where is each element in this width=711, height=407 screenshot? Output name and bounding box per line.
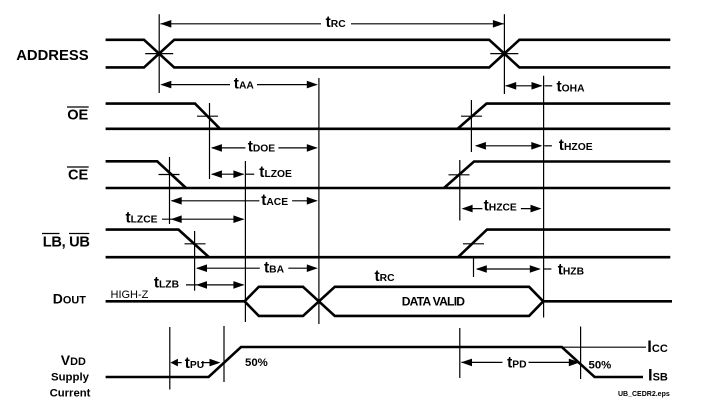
svg-text:DOUT: DOUT bbox=[53, 291, 86, 307]
svg-text:tHZB: tHZB bbox=[558, 261, 584, 278]
tick on LB/UB rising edge bbox=[463, 243, 484, 245]
svg-text:ICC: ICC bbox=[647, 338, 668, 356]
svg-text:Current: Current bbox=[50, 388, 91, 400]
tick on OE rising edge bbox=[461, 115, 482, 117]
svg-text:tACE: tACE bbox=[261, 192, 288, 209]
tick at ADDRESS crossover 2 bbox=[490, 53, 518, 55]
vertical reference line at OE rise (x=471.4) bbox=[470, 100, 472, 152]
svg-text:Supply: Supply bbox=[51, 372, 90, 384]
tick on LB/UB falling edge bbox=[185, 243, 206, 245]
svg-text:ISB: ISB bbox=[648, 367, 668, 385]
svg-text:VDD: VDD bbox=[61, 352, 86, 368]
svg-text:CE: CE bbox=[68, 168, 89, 184]
dimension arrow tHZCE bbox=[462, 205, 542, 213]
svg-text:tLZCE: tLZCE bbox=[125, 209, 157, 226]
label LB-bar, UB-bar bbox=[42, 234, 90, 251]
svg-text:tHZOE: tHZOE bbox=[559, 137, 593, 154]
svg-text:HIGH-Z: HIGH-Z bbox=[111, 289, 149, 301]
dimension arrow tDOE bbox=[211, 144, 318, 152]
dimension arrow tBA bbox=[196, 264, 318, 272]
svg-text:UB_CEDR2.eps: UB_CEDR2.eps bbox=[618, 391, 670, 398]
vertical reference line at CE rise (x=459.8) bbox=[459, 160, 461, 221]
vertical reference line at x=459.8 (power-down start) bbox=[459, 328, 461, 378]
signal LB/UB-bar rising edge back to high bbox=[458, 230, 670, 258]
signal OE-bar high rail with falling edge bbox=[106, 104, 220, 129]
label OE-bar bbox=[67, 107, 89, 124]
signal DOUT high-impedance center line bbox=[106, 300, 245, 303]
dimension arrow tRC bbox=[160, 20, 504, 28]
signal ADDRESS bus rail A (top-left to bottom-right through crossovers) bbox=[106, 40, 671, 68]
vertical reference line at CE fall (x=170.5) bbox=[169, 157, 171, 224]
long vertical reference line at x=543 (data hold end) bbox=[543, 76, 545, 318]
svg-text:tHZCE: tHZCE bbox=[484, 198, 517, 215]
vertical reference line at x=580.6 (50% of fall) bbox=[580, 327, 582, 380]
vertical reference line at ADDRESS transition 2 (x=502) bbox=[503, 14, 505, 94]
vertical reference line at ADDRESS transition 1 (x=158) bbox=[158, 14, 160, 93]
svg-text:50%: 50% bbox=[589, 359, 612, 371]
svg-text:tPD: tPD bbox=[507, 354, 526, 371]
svg-text:50%: 50% bbox=[245, 357, 268, 369]
tick at ADDRESS crossover 1 bbox=[145, 53, 173, 55]
signal CE-bar high rail with falling edge bbox=[106, 161, 186, 188]
dimension arrow tOHA bbox=[505, 82, 552, 90]
dimension arrow tPU bbox=[170, 359, 220, 367]
label CE-bar bbox=[67, 167, 89, 184]
vertical reference line at x=170.5 (power-up start) bbox=[169, 327, 171, 390]
tick on CE falling edge bbox=[159, 174, 180, 176]
svg-text:DATA VALID: DATA VALID bbox=[402, 294, 466, 308]
dimension arrow tACE bbox=[171, 197, 318, 205]
svg-text:tPU: tPU bbox=[185, 355, 204, 372]
signal CE-bar low rail (continuous) bbox=[106, 187, 671, 190]
signal OE-bar rising edge back to high bbox=[458, 104, 671, 129]
dimension arrow tPD bbox=[461, 359, 580, 367]
dimension arrow tAA bbox=[160, 81, 317, 89]
tick on CE rising edge bbox=[449, 174, 470, 176]
dimension arrow tHZOE bbox=[475, 142, 552, 150]
svg-text:tRC: tRC bbox=[326, 14, 347, 31]
svg-text:tOHA: tOHA bbox=[557, 78, 586, 95]
svg-text:OE: OE bbox=[67, 108, 88, 124]
svg-text:tAA: tAA bbox=[234, 75, 255, 92]
signal VDD supply current waveform bbox=[106, 347, 643, 377]
vertical reference line at LB/UB rise (x=473.5) bbox=[473, 256, 475, 277]
dimension arrow tLZCE bbox=[162, 215, 244, 223]
svg-text:tLZOE: tLZOE bbox=[259, 164, 292, 181]
dimension arrow tHZB bbox=[476, 265, 552, 273]
vertical reference line at x=224 (50% of rise) bbox=[223, 326, 225, 382]
signal OE-bar low rail (continuous) bbox=[106, 128, 671, 131]
svg-text:tLZB: tLZB bbox=[154, 274, 179, 291]
dimension arrow tLZOE bbox=[211, 170, 254, 178]
long vertical reference line at x=319.5 (data valid start) bbox=[318, 78, 320, 324]
vertical reference line at OE fall (x=209.5) bbox=[209, 103, 211, 179]
svg-text:tDOE: tDOE bbox=[248, 139, 276, 156]
label VDD Supply Current bbox=[50, 352, 91, 399]
signal ADDRESS bus rail B (bottom-left to top-right through crossovers) bbox=[106, 40, 671, 68]
tick on OE falling edge bbox=[197, 115, 218, 117]
vertical reference line at x=245 (output becomes low-Z) bbox=[244, 161, 246, 322]
svg-text:ADDRESS: ADDRESS bbox=[16, 48, 88, 64]
dimension arrow tLZB bbox=[186, 281, 244, 289]
signal LB/UB-bar low rail (continuous) bbox=[106, 256, 671, 259]
vertical reference line at LB/UB fall (x=194.5) bbox=[194, 231, 196, 291]
svg-text:tBA: tBA bbox=[264, 259, 285, 276]
svg-text:LB, UB: LB, UB bbox=[43, 235, 90, 251]
signal LB/UB-bar high rail with falling edge bbox=[106, 230, 209, 258]
signal DOUT bus rail B bbox=[245, 287, 544, 316]
signal CE-bar rising edge back to high bbox=[444, 162, 670, 189]
thin ICC level line bbox=[562, 346, 646, 348]
svg-text:tRC: tRC bbox=[375, 268, 396, 285]
signal DOUT bus rail A (opens, crossover, data valid, crossover) bbox=[245, 287, 672, 316]
